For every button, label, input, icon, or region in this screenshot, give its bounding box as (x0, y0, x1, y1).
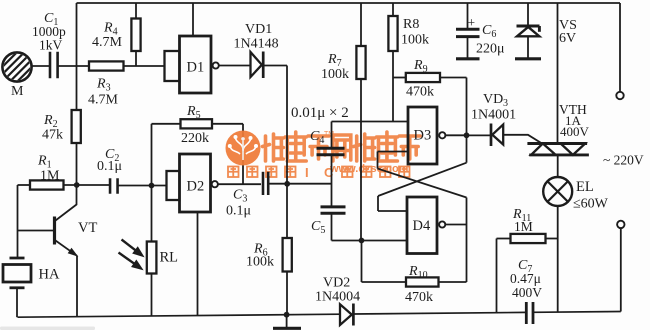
capacitor C4 (317, 148, 345, 155)
resistor R7 (356, 46, 365, 79)
svg-text:VD: VD (483, 92, 503, 107)
watermark dzsc.com text (228, 131, 420, 180)
wire R8 node to R9 (393, 77, 406, 79)
wire D2 out to C3 (218, 183, 261, 185)
wire R11 right (546, 238, 558, 240)
wire cross latch to D3 lower input (378, 169, 467, 283)
wire RL to ground rail (151, 274, 153, 317)
wire C3 to C4C5 node (268, 183, 332, 185)
wire R1 left to base (18, 185, 31, 257)
wire cross D3out to D4in (378, 135, 467, 211)
svg-text:D2: D2 (187, 179, 205, 195)
triac VTH (527, 144, 589, 155)
node collector junction (74, 182, 80, 188)
label C7 value (510, 271, 541, 286)
svg-text:47k: 47k (42, 128, 63, 143)
wire R8 down to D3 input (392, 51, 394, 122)
diode VD2 (340, 304, 353, 326)
scan shadow (0, 327, 95, 331)
capacitor C5 (321, 207, 346, 213)
wire lamp down (557, 206, 559, 312)
wire top supply rail (77, 2, 621, 4)
wire D2 bottom to ground rail (197, 212, 199, 316)
terminal bottom (617, 221, 624, 228)
wire base (18, 230, 54, 232)
label D4 (413, 218, 431, 234)
wire rail to D1 top (192, 3, 194, 36)
label VS value (559, 31, 576, 46)
wire R9 to D3 output (440, 78, 467, 134)
wire triac MT1 to lamp (557, 155, 559, 177)
svg-text:R8: R8 (403, 17, 419, 32)
label C5 (311, 219, 325, 236)
wire rail to R7 (360, 3, 362, 46)
label VTH current (565, 113, 582, 128)
label R11 (512, 207, 531, 224)
label C1 value (32, 24, 66, 53)
label M (11, 84, 24, 99)
svg-text:D1: D1 (187, 60, 205, 76)
svg-text:220k: 220k (181, 131, 209, 146)
label VD3 (483, 92, 508, 109)
wire rail to VS (527, 3, 529, 26)
label C3 (233, 188, 247, 205)
svg-text:0.1μ: 0.1μ (226, 204, 251, 219)
wire C2 to D2 input (118, 185, 168, 187)
label VTH (559, 102, 587, 117)
label R7 value (321, 67, 349, 82)
label D2 (187, 179, 205, 195)
label C2 value (97, 159, 122, 174)
transistor VT collector (56, 185, 77, 221)
wire R4 to mic line (135, 51, 137, 66)
label VT (78, 220, 97, 236)
transistor VT emitter with arrow (56, 241, 78, 256)
label R2 (43, 113, 58, 130)
svg-text:4.7M: 4.7M (92, 35, 123, 50)
gate D1 input bar (165, 51, 180, 81)
wire mic to C1 (32, 65, 50, 67)
svg-text:VD1: VD1 (245, 22, 272, 37)
label R4 value (92, 35, 123, 50)
gate D1 box (180, 36, 212, 93)
gate D2 input bar (167, 171, 180, 200)
svg-text:M: M (11, 84, 24, 99)
node ground junction (284, 312, 290, 318)
node D3 output junction (464, 132, 470, 138)
buzzer HA bottom plate (10, 286, 25, 289)
svg-text:400V: 400V (560, 124, 590, 139)
svg-text:D4: D4 (413, 218, 431, 234)
svg-text:100k: 100k (321, 67, 349, 82)
label VD2 value (315, 290, 360, 305)
wire R6 to ground rail (286, 272, 288, 315)
gate D3 box (408, 107, 437, 164)
svg-text:6V: 6V (559, 31, 576, 46)
svg-text:0.1μ: 0.1μ (97, 159, 122, 174)
resistor R6 (283, 238, 292, 272)
wire ground rail middle (353, 312, 526, 314)
svg-text:HA: HA (39, 267, 60, 283)
label VS (559, 18, 577, 33)
label D1 (187, 60, 205, 76)
gate D2 box (180, 154, 211, 212)
svg-text:C: C (324, 165, 334, 180)
wire R5 left (152, 124, 181, 186)
light arrows into RL (119, 240, 144, 270)
ground symbol (273, 315, 301, 329)
svg-text:1M: 1M (40, 169, 60, 184)
wire rail to C6 (467, 3, 469, 28)
label C6 value (476, 42, 505, 57)
wire rail right of C7 (533, 311, 621, 314)
svg-text:400V: 400V (512, 285, 542, 300)
wire R1 right to node (64, 184, 111, 186)
svg-text:100k: 100k (401, 33, 429, 48)
label EL (576, 179, 594, 195)
label R10 value (405, 290, 433, 305)
label R5 value (181, 131, 209, 146)
svg-text:VD2: VD2 (323, 276, 350, 291)
svg-text:TM: TM (324, 131, 334, 138)
svg-text:D3: D3 (414, 128, 432, 144)
wire rail to R4 (135, 3, 137, 19)
wire VS to ground (527, 36, 529, 57)
svg-text:1N4001: 1N4001 (471, 108, 516, 123)
label 220V (603, 153, 644, 168)
label R8 (403, 17, 419, 32)
label EL power (573, 197, 609, 212)
label HA (39, 267, 60, 283)
label R1 value (40, 169, 60, 184)
capacitor C3 (263, 172, 268, 195)
terminal top (616, 92, 623, 99)
buzzer HA body (3, 265, 31, 283)
node D2 input junction (149, 183, 155, 189)
wire R10 right (439, 281, 467, 283)
wire VD1 to C-node (262, 66, 287, 185)
capacitor C2 (110, 178, 118, 194)
label R9 (413, 58, 428, 75)
photoresistor RL (147, 242, 157, 274)
svg-text:1N4004: 1N4004 (315, 290, 360, 305)
svg-text:220μ: 220μ (476, 42, 505, 57)
ground bar VS (515, 57, 541, 60)
wire bottom terminal to rail (620, 228, 622, 311)
label C1 (44, 11, 58, 28)
label R5 (186, 104, 201, 121)
svg-text:1kV: 1kV (39, 38, 63, 53)
svg-text:470k: 470k (406, 85, 434, 100)
wire D1 to VD1 (219, 65, 251, 67)
node audio junction (284, 181, 290, 187)
label R7 (327, 52, 342, 69)
label R3 (96, 77, 111, 94)
wire D3out to VD3 (467, 134, 491, 136)
wire VD3 to triac gate (503, 135, 542, 144)
wire D4 out (445, 224, 466, 226)
label C6 (482, 23, 496, 40)
svg-text:1N4148: 1N4148 (234, 37, 279, 52)
buzzer HA top plate (10, 257, 25, 260)
label R9 value (406, 85, 434, 100)
wire C6 to ground (467, 37, 469, 58)
label VD1 value (234, 37, 279, 52)
svg-text:≤60W: ≤60W (573, 197, 609, 212)
resistor R5 (181, 119, 213, 128)
label C2 (105, 147, 119, 164)
wire D4 lower input (362, 240, 408, 242)
svg-text:I: I (305, 165, 309, 180)
wire node to R6 (286, 184, 288, 238)
label VD3 value (471, 108, 516, 123)
wire C5 bottom to osc node (332, 213, 362, 240)
diode VD1 (251, 52, 264, 79)
label R2 value (42, 128, 63, 143)
label 0.01u x2 (291, 105, 349, 121)
label C4 (310, 129, 324, 146)
resistor R9 (406, 73, 440, 82)
wire D3 lower input (378, 152, 409, 169)
svg-text:~ 220V: ~ 220V (603, 153, 644, 168)
transistor VT base bar (53, 217, 56, 245)
wire C4 bottom to C5 (331, 155, 333, 207)
capacitor C1 (50, 52, 58, 79)
label R11 value (514, 219, 533, 234)
wire R11 left (497, 239, 511, 313)
zener diode VS (517, 26, 540, 36)
gate D4 box (407, 197, 437, 254)
gate D2 output bubble (212, 181, 218, 187)
capacitor C7 (526, 302, 533, 324)
svg-text:VT: VT (78, 220, 97, 236)
wire rail to triac MT2 (557, 3, 559, 143)
label C3 value (226, 204, 251, 219)
svg-text:100k: 100k (246, 255, 274, 270)
svg-text:1M: 1M (514, 219, 533, 234)
wire D3 out (445, 134, 466, 136)
resistor R3 (89, 61, 124, 70)
resistor R11 (511, 234, 546, 243)
label D3 (414, 128, 432, 144)
wire rail to R8 (392, 3, 394, 16)
lamp EL (543, 177, 572, 206)
svg-text:470k: 470k (405, 290, 433, 305)
label R4 (103, 21, 118, 38)
gate D1 output bubble (213, 62, 219, 68)
wire R2 to collector node (76, 143, 78, 185)
label VD2 (323, 276, 350, 291)
label RL (160, 250, 179, 266)
label R3 value (88, 93, 119, 108)
resistor R10 (406, 277, 439, 286)
watermark dzsc.com logo (226, 131, 261, 166)
label VTH voltage (560, 124, 590, 139)
microphone M (0, 52, 61, 81)
wire rail to top terminal (619, 3, 621, 92)
label C7 (518, 258, 532, 275)
svg-text:0.47μ: 0.47μ (510, 271, 541, 286)
ground bar C6 (456, 57, 480, 60)
capacitor C6 (456, 29, 480, 36)
wire R3 to D1 input (124, 65, 166, 67)
label C7 voltage (512, 285, 542, 300)
wire C1 to R3 (58, 65, 89, 67)
label R8 value (401, 33, 429, 48)
wire R5 right (212, 124, 243, 184)
wire C4 top to D3 input line (332, 122, 410, 149)
resistor R1 (30, 180, 64, 189)
gate D4 output bubble (439, 221, 445, 227)
capacitor C6 plus (468, 15, 476, 30)
label R1 (37, 154, 52, 171)
wire ground rail left (18, 314, 341, 317)
svg-text:EL: EL (576, 179, 594, 195)
wire R7 to osc node (360, 79, 362, 241)
label VD1 (245, 22, 272, 37)
label R6 (253, 242, 268, 259)
label R10 (408, 264, 428, 281)
svg-text:RL: RL (160, 250, 179, 266)
gate D3 output bubble (439, 132, 445, 138)
wire emitter to ground rail (76, 256, 78, 317)
wire rail to R2 (76, 3, 78, 110)
wire node to RL (151, 186, 153, 242)
wire R10 left (362, 241, 407, 283)
resistor R4 (131, 19, 140, 52)
svg-text:+: + (468, 15, 476, 30)
diode VD3 (491, 124, 503, 147)
svg-text:4.7M: 4.7M (88, 93, 119, 108)
label R6 value (246, 255, 274, 270)
node oscillator junction (359, 238, 365, 244)
resistor R2 (72, 110, 81, 143)
wire HA to ground rail (16, 288, 18, 317)
svg-text:0.01μ × 2: 0.01μ × 2 (291, 105, 349, 121)
resistor R8 (388, 16, 397, 51)
